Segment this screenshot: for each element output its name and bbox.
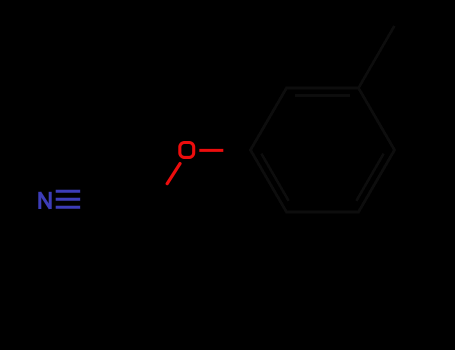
bond O-ring (O half, red) xyxy=(199,149,223,152)
benzene ring (faint dark gray) xyxy=(251,88,395,212)
bond CH2-O (CH2 half, near-black) xyxy=(147,184,167,217)
triple bond N#C (C half, near-black) xyxy=(80,191,117,207)
bond ring-CH3 methyl (near-black) xyxy=(359,26,395,88)
triple bond N#C (N half, blue) xyxy=(56,191,81,207)
double bond inner line (lower-left edge) xyxy=(261,154,288,201)
double bond inner line (lower-right edge) xyxy=(356,154,383,201)
nitrogen atom label N xyxy=(40,192,50,209)
double bond inner line (top edge) xyxy=(295,94,350,97)
bond CH2-O (O half, red) xyxy=(167,164,180,184)
bond C-CH2 (carbon, near-black) xyxy=(117,200,147,218)
bond O-ring (ring half, near-black) xyxy=(223,149,250,152)
oxygen atom label O xyxy=(180,143,194,158)
